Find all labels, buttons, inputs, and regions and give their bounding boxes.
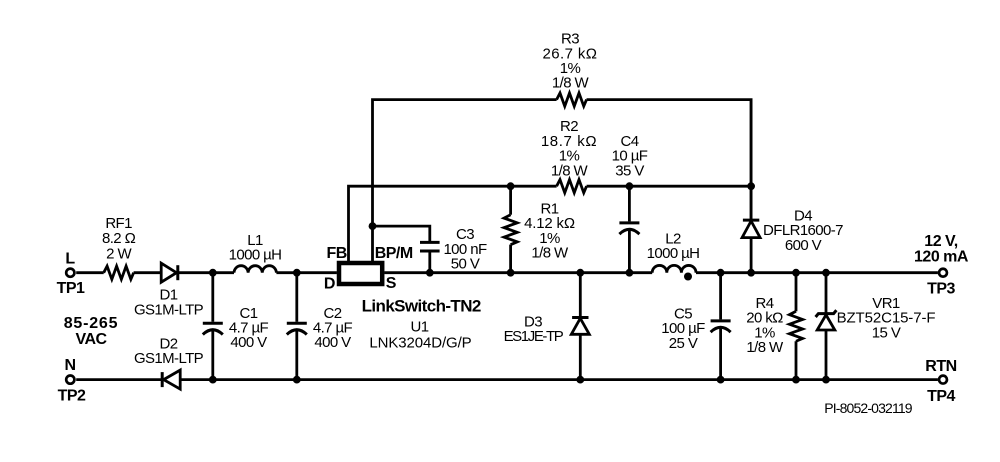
C2 value label — [313, 305, 353, 351]
diode D3 — [571, 273, 589, 380]
wire: L2 to TP3 — [696, 271, 938, 274]
RF1 value label — [102, 215, 136, 262]
junction: C1 bottom — [209, 376, 217, 384]
capacitor C5 — [711, 273, 731, 380]
svg-text:15 V: 15 V — [872, 324, 901, 341]
junction: D4 bottom — [747, 269, 755, 277]
terminal TP2 (N input) — [66, 376, 74, 384]
svg-text:ES1JE-TP: ES1JE-TP — [504, 328, 564, 345]
capacitor C2 — [287, 273, 307, 380]
wire: C3 branch — [373, 226, 430, 242]
D2 value label — [134, 335, 204, 367]
svg-text:S: S — [386, 275, 397, 292]
svg-text:35 V: 35 V — [615, 162, 644, 179]
capacitor C3 — [420, 242, 440, 272]
junction: BP/M to C3 branch — [369, 222, 377, 230]
D4 value label — [763, 207, 843, 253]
R4 value label — [746, 295, 784, 356]
wire: L1 to U1 D pin — [276, 271, 337, 274]
svg-text:TP2: TP2 — [58, 387, 86, 404]
L1 value label — [229, 232, 282, 264]
input voltage label — [64, 315, 119, 348]
L2 value label — [647, 230, 700, 262]
R3 value label — [543, 31, 598, 92]
wire: bottom rail D2 to TP4 — [180, 378, 938, 381]
op IC U1 LinkSwitch-TN2 body — [339, 263, 382, 284]
resistor R4 — [789, 273, 802, 380]
svg-text:TP3: TP3 — [927, 280, 955, 297]
R2 value label — [541, 118, 597, 179]
svg-text:400 V: 400 V — [230, 334, 267, 351]
capacitor C4 — [619, 186, 639, 273]
resistor RF1 — [104, 266, 134, 279]
U1 part labels — [362, 297, 481, 352]
wire: R3 feedback line (BP/M to D4 top) — [373, 100, 752, 262]
resistor R2 — [557, 180, 587, 193]
svg-text:TP1: TP1 — [57, 280, 85, 297]
terminal TP4 (RTN) — [939, 376, 947, 384]
capacitor C1 — [203, 273, 223, 380]
junction: R1 top — [507, 182, 515, 190]
RTN labels — [925, 358, 956, 405]
svg-text:50 V: 50 V — [451, 256, 480, 273]
junction: VR1 top — [822, 269, 830, 277]
svg-text:85-265: 85-265 — [64, 315, 119, 332]
junction: D3 bottom — [576, 376, 584, 384]
diode D2 — [162, 370, 180, 389]
svg-text:TP4: TP4 — [927, 388, 955, 405]
TP2 terminal labels — [58, 357, 86, 404]
svg-text:1/8 W: 1/8 W — [551, 162, 589, 179]
svg-text:U1: U1 — [411, 319, 429, 336]
svg-text:RTN: RTN — [925, 358, 956, 375]
U1 pin labels — [324, 245, 413, 293]
junction: DC bus / C1 — [209, 269, 217, 277]
svg-text:120 mA: 120 mA — [914, 248, 969, 265]
junction: R4 bottom — [792, 376, 800, 384]
junction: C3 bottom on S rail — [426, 269, 434, 277]
svg-text:400 V: 400 V — [314, 334, 351, 351]
junction: VR1 bottom — [822, 376, 830, 384]
junction: C4 bottom — [626, 269, 634, 277]
svg-text:1000 µH: 1000 µH — [229, 247, 282, 264]
junction: D3 top — [576, 269, 584, 277]
svg-text:FB: FB — [327, 245, 347, 262]
output labels — [914, 233, 969, 297]
D3 value label — [504, 313, 564, 345]
svg-text:25 V: 25 V — [669, 335, 698, 352]
diode D1 — [161, 263, 178, 282]
resistor R1 — [504, 186, 517, 273]
terminal TP1 (L input) — [66, 269, 74, 277]
svg-text:D: D — [324, 275, 335, 292]
wire: R2 feedback line (FB to D4) — [349, 186, 752, 262]
resistor R3 — [557, 93, 587, 106]
svg-text:LNK3204D/G/P: LNK3204D/G/P — [369, 335, 471, 352]
svg-text:VAC: VAC — [75, 331, 107, 348]
wire: TP2 to D2 — [76, 378, 162, 381]
junction: C5 top — [717, 269, 725, 277]
svg-text:1/8 W: 1/8 W — [552, 75, 590, 92]
junction: C2 bottom — [293, 376, 301, 384]
svg-text:BP/M: BP/M — [375, 245, 413, 262]
R1 value label — [524, 200, 575, 261]
D1 value label — [134, 287, 204, 319]
C4 value label — [612, 133, 648, 179]
junction: C2 top — [293, 269, 301, 277]
svg-text:GS1M-LTP: GS1M-LTP — [134, 301, 204, 318]
junction: R1 bottom — [507, 269, 515, 277]
junction: R4 top — [792, 269, 800, 277]
C1 value label — [229, 305, 269, 351]
wire: RF1 to D1 — [134, 271, 162, 274]
svg-text:L: L — [65, 250, 75, 267]
svg-text:600 V: 600 V — [785, 237, 822, 254]
svg-text:2 W: 2 W — [106, 245, 132, 262]
C3 value label — [443, 226, 487, 272]
TP1 terminal labels — [57, 250, 85, 297]
wire: U1 S pin to L2 — [384, 271, 652, 274]
VR1 value label — [837, 295, 936, 341]
wire: D1 to L1 — [177, 271, 235, 274]
junction: C4 top — [626, 182, 634, 190]
L2 polarity dot — [684, 273, 692, 281]
svg-text:GS1M-LTP: GS1M-LTP — [134, 350, 204, 367]
svg-text:LinkSwitch-TN2: LinkSwitch-TN2 — [362, 297, 481, 316]
junction: C5 bottom — [717, 376, 725, 384]
zener diode VR1 — [816, 273, 837, 380]
svg-text:1/8 W: 1/8 W — [746, 339, 784, 356]
C5 value label — [661, 305, 705, 351]
terminal TP3 (12V output) — [939, 269, 947, 277]
svg-text:1000 µH: 1000 µH — [647, 245, 700, 262]
inductor L1 — [234, 266, 276, 273]
diode D4 — [742, 100, 760, 273]
svg-text:PI-8052-032119: PI-8052-032119 — [824, 400, 913, 416]
wire: TP1 to RF1 — [76, 271, 104, 274]
svg-text:1/8 W: 1/8 W — [531, 245, 569, 262]
junction: D4 on R2 line — [747, 182, 755, 190]
inductor L2 — [652, 265, 696, 272]
svg-text:N: N — [64, 357, 75, 374]
